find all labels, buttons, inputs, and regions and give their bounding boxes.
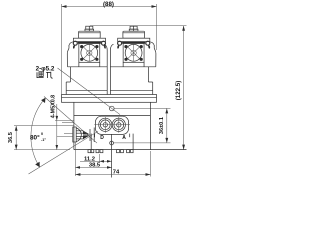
- svg-text:38.5: 38.5: [89, 163, 101, 169]
- port A circle: [94, 117, 130, 133]
- solenoid unit 2 lower body: [110, 67, 152, 95]
- solenoid unit 1 cap: [79, 31, 101, 38]
- dimension 36.5 left: [8, 121, 74, 150]
- side port wedge (cross-section): [62, 123, 94, 142]
- solenoid unit 1 nub screw: [85, 26, 94, 31]
- dimension 36±0.1 right: [114, 108, 171, 142]
- svg-text:80°: 80°: [30, 134, 40, 142]
- manifold flange: [62, 95, 157, 103]
- svg-text:A: A: [122, 135, 126, 141]
- solenoid unit 2 cap: [123, 31, 145, 38]
- center screw hole: [110, 141, 114, 145]
- angle 80 deg lines: [29, 97, 99, 175]
- solenoid unit 2 ear screws: [118, 41, 150, 48]
- svg-text:(88): (88): [103, 1, 114, 8]
- solenoid unit 2 plate: [118, 38, 150, 43]
- svg-text:4-M5X0.8: 4-M5X0.8: [50, 95, 56, 118]
- solenoid unit 2 nub screw: [129, 26, 138, 31]
- manifold base block: [91, 134, 133, 150]
- label 2-phi5.2 through hole: [36, 66, 120, 115]
- dimension 74 bottom: [75, 135, 150, 178]
- solenoid unit 2 circle detail: [125, 44, 142, 61]
- svg-text:(122.5): (122.5): [175, 81, 182, 101]
- solenoid unit 1 square face: [79, 43, 100, 62]
- svg-text:2-φ5.2: 2-φ5.2: [36, 66, 55, 73]
- svg-text:0: 0: [41, 132, 43, 136]
- dimension 38.5 bottom: [75, 142, 111, 176]
- svg-text:-1°: -1°: [41, 138, 46, 142]
- port stadium outline: [95, 116, 128, 134]
- solenoid unit 1 circle detail: [81, 44, 98, 61]
- manifold body: [74, 102, 187, 149]
- solenoid unit 1 neck lines: [79, 62, 100, 67]
- solenoid unit 2 neck lines: [123, 62, 144, 67]
- port D circle: [99, 117, 112, 133]
- solenoid unit 2 skirt: [110, 42, 156, 95]
- dimension (88) top: [62, 1, 157, 94]
- mounting feet tabs: [88, 150, 133, 153]
- svg-text:36±0.1: 36±0.1: [159, 117, 165, 134]
- angle 80 deg text: [30, 132, 46, 142]
- svg-text:36.5: 36.5: [8, 132, 14, 143]
- svg-text:74: 74: [113, 170, 120, 176]
- solenoid unit 1 skirt: [67, 42, 107, 95]
- dimension 11.2 bottom: [80, 154, 112, 163]
- solenoid unit 1 ear screws: [73, 41, 105, 48]
- solenoid unit 1 lower body: [66, 67, 107, 95]
- label 4-M5X0.8 vertical: [50, 95, 73, 150]
- solenoid unit 1 plate: [73, 38, 105, 43]
- svg-text:D: D: [100, 135, 104, 141]
- solenoid unit 2 square face: [123, 43, 144, 62]
- dimension (122.5) right: [90, 26, 187, 150]
